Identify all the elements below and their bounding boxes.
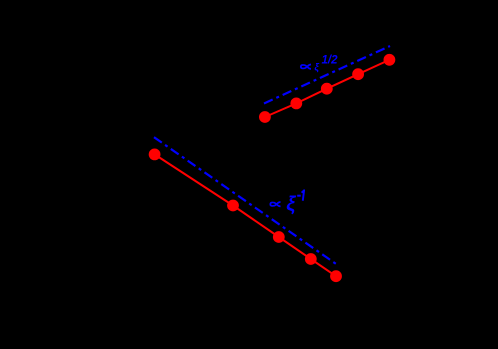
upper blue dash-dot guide line bbox=[264, 46, 390, 104]
svg-text:ξ: ξ bbox=[286, 193, 296, 215]
svg-text:ξ: ξ bbox=[314, 62, 319, 73]
lower red series markers bbox=[149, 149, 342, 283]
lower red series line bbox=[155, 154, 336, 276]
upper label: proportional to xi^(1/2) bbox=[301, 54, 338, 73]
upper red series markers bbox=[259, 54, 395, 123]
upper red series line bbox=[265, 60, 390, 117]
svg-text:1/2: 1/2 bbox=[322, 54, 339, 66]
lower label: proportional to xi^(-1) bbox=[270, 190, 304, 215]
lower blue dash-dot guide line bbox=[154, 137, 337, 264]
